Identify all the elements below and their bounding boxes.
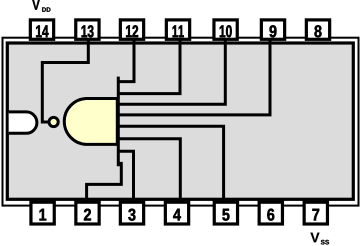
wire: input to pin 11 xyxy=(117,40,180,94)
wire: input to pin 9 xyxy=(117,40,270,115)
IC package outer outline xyxy=(3,38,359,206)
pin 10 xyxy=(214,20,237,39)
pin 14 xyxy=(30,20,53,39)
wire: input to pin 2 (staircase) xyxy=(87,163,122,202)
net label VSS xyxy=(310,233,329,245)
wire: gate output to pin 13 xyxy=(42,40,88,122)
pin 5 xyxy=(214,202,237,224)
pin-1 notch xyxy=(9,112,37,133)
pin 13 xyxy=(76,20,99,39)
wire: input to pin 5 xyxy=(117,126,224,202)
wire: input to pin 3 xyxy=(117,151,134,202)
pin 7 xyxy=(304,202,327,224)
pin 11 xyxy=(166,20,189,39)
pin 2 xyxy=(76,202,99,224)
pin 9 xyxy=(261,20,284,39)
pin 3 xyxy=(120,202,143,224)
wire: input spine xyxy=(117,77,120,167)
pin 12 xyxy=(120,20,143,39)
pin 1 xyxy=(31,202,54,224)
pin 4 xyxy=(165,202,188,224)
wire: input to pin 10 xyxy=(117,40,225,104)
pin 8 xyxy=(306,20,329,39)
net label VDD xyxy=(32,0,50,12)
wire: input to pin 4 xyxy=(117,139,180,202)
IC package body xyxy=(7,43,353,199)
output inversion bubble xyxy=(49,117,58,126)
pin 6 xyxy=(259,202,282,224)
NAND gate U1 (8-input, facing left) xyxy=(64,98,117,144)
wire: input to pin 12 xyxy=(117,40,134,82)
